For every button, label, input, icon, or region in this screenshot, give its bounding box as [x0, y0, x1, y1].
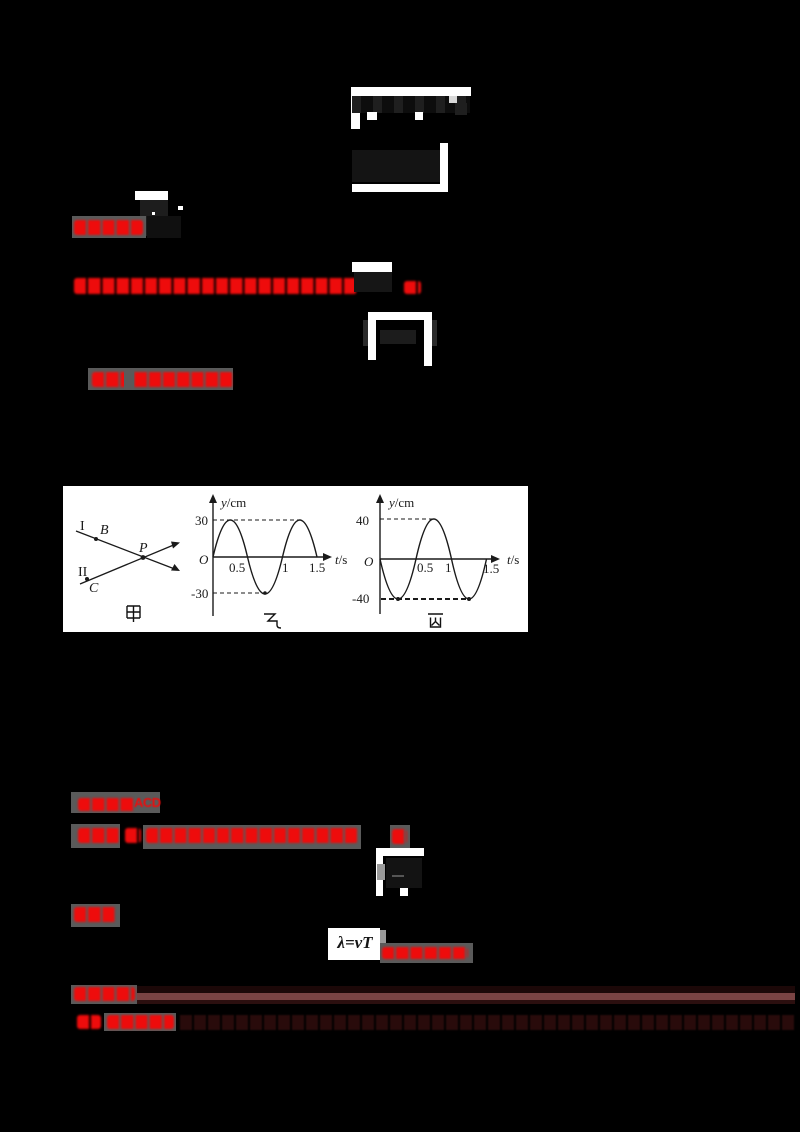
svg-text:t/s: t/s: [335, 552, 347, 567]
svg-text:1.5: 1.5: [483, 561, 499, 576]
svg-text:t/s: t/s: [507, 552, 519, 567]
svg-text:0.5: 0.5: [229, 560, 245, 575]
svg-text:B: B: [100, 523, 109, 538]
svg-text:O: O: [364, 554, 374, 569]
svg-text:-40: -40: [352, 591, 369, 606]
svg-text:I: I: [80, 519, 85, 534]
svg-text:1: 1: [445, 560, 452, 575]
svg-text:P: P: [138, 541, 148, 556]
svg-text:1.5: 1.5: [309, 560, 325, 575]
svg-text:y/cm: y/cm: [387, 495, 414, 510]
svg-text:0.5: 0.5: [417, 560, 433, 575]
svg-text:C: C: [89, 581, 99, 596]
svg-text:y/cm: y/cm: [219, 495, 246, 510]
svg-text:1: 1: [282, 560, 289, 575]
svg-text:-30: -30: [191, 586, 208, 601]
svg-text:II: II: [78, 565, 88, 580]
svg-text:O: O: [199, 552, 209, 567]
svg-text:30: 30: [195, 513, 208, 528]
svg-text:40: 40: [356, 513, 369, 528]
